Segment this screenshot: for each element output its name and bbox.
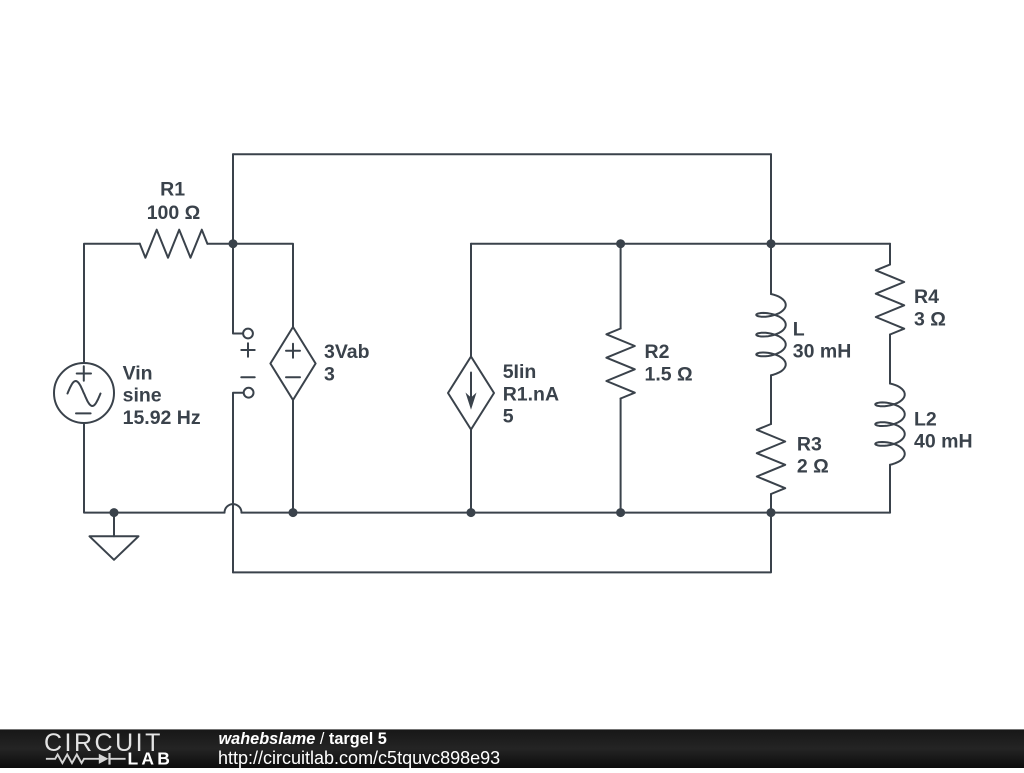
wire left drop from top rail to node A (232, 154, 234, 243)
wire Vin top lead to R1 (84, 244, 140, 363)
wire R1 to node A (207, 243, 233, 245)
junction 5Iin bottom (467, 508, 476, 517)
svg-text:L2: L2 (914, 408, 937, 430)
wire right drop from top rail (770, 154, 772, 243)
svg-text:5: 5 (503, 406, 514, 428)
svg-text:R1: R1 (160, 179, 185, 201)
svg-text:R2: R2 (645, 341, 670, 363)
wire R2 bottom lead (620, 399, 622, 513)
wire R4 top lead (889, 244, 891, 265)
ground stub (113, 513, 115, 537)
wire R3 bottom lead (770, 494, 772, 513)
CircuitLab logo diode bar (108, 753, 110, 765)
junction R2 bottom (616, 508, 625, 517)
svg-text:3Vab: 3Vab (324, 341, 370, 363)
svg-text:R4: R4 (914, 286, 939, 308)
junction node A (229, 239, 238, 248)
svg-text:5Iin: 5Iin (503, 361, 537, 383)
svg-text:R1.nA: R1.nA (503, 383, 559, 405)
svg-text:3: 3 (324, 363, 335, 385)
label - of port ab (241, 376, 254, 378)
3Vab plus mark (286, 344, 300, 358)
svg-text:30 mH: 30 mH (793, 341, 852, 363)
junction R2 top (616, 239, 625, 248)
svg-text:L: L (793, 318, 805, 340)
svg-text:2 Ω: 2 Ω (797, 456, 829, 478)
wire top rail (233, 153, 771, 155)
junction L branch top (767, 239, 776, 248)
CircuitLab logo diode triangle (99, 754, 109, 764)
dependent voltage source 3Vab diamond (270, 327, 315, 400)
Vin sine waveform (68, 381, 101, 406)
svg-text:3 Ω: 3 Ω (914, 308, 946, 330)
wire terminal b down to bottom rail (233, 393, 243, 573)
5Iin arrowhead (466, 393, 477, 410)
voltage source Vin (54, 363, 114, 423)
terminal a (243, 329, 253, 339)
terminal b (244, 388, 254, 398)
svg-text:LAB: LAB (128, 748, 174, 768)
svg-text:40 mH: 40 mH (914, 431, 973, 453)
junction 3Vab bottom (289, 508, 298, 517)
label + of port ab (241, 343, 254, 356)
3Vab minus mark (286, 376, 300, 378)
svg-text:R3: R3 (797, 433, 822, 455)
ground symbol (90, 536, 139, 560)
wire L top lead (770, 244, 772, 294)
Vin minus mark (76, 412, 91, 414)
inductor L2 (875, 384, 904, 465)
CircuitLab logo resistor squiggle (46, 755, 126, 764)
wire 5Iin bottom lead (470, 430, 472, 513)
wire 3Vab bottom to rail (292, 400, 294, 513)
junction R3 bottom (767, 508, 776, 517)
resistor R1 (140, 230, 208, 258)
svg-text:sine: sine (123, 385, 162, 407)
wire node A to 3Vab top (233, 244, 293, 327)
wire R4 to L2 (889, 335, 891, 384)
resistor R2 (606, 329, 634, 399)
svg-text:http://circuitlab.com/c5tquvc8: http://circuitlab.com/c5tquvc898e93 (218, 748, 500, 768)
wire middle rail from 5Iin to R4 branch (471, 243, 890, 245)
svg-text:100 Ω: 100 Ω (147, 202, 201, 224)
wire L2 bottom lead (889, 465, 891, 513)
wire bottom rail lowest (233, 513, 771, 573)
wire R2 top lead (620, 244, 622, 329)
svg-text:wahebslame / targel 5: wahebslame / targel 5 (219, 730, 387, 748)
junction ground (110, 508, 119, 517)
wire Vin bottom to ground rail (84, 424, 225, 513)
wire node A down to terminal a (233, 244, 243, 334)
wire L to R3 (770, 375, 772, 424)
svg-text:15.92 Hz: 15.92 Hz (123, 407, 201, 429)
wire hop over vertical at x=233 (225, 504, 242, 512)
inductor L (756, 294, 785, 375)
resistor R4 (876, 265, 904, 335)
Vin plus mark (77, 366, 91, 380)
5Iin arrow shaft (470, 373, 472, 399)
wire bottom rail right of hop (242, 512, 891, 514)
svg-text:1.5 Ω: 1.5 Ω (645, 364, 693, 386)
dependent current source 5Iin diamond (448, 357, 494, 430)
wire 5Iin top lead (470, 244, 472, 357)
footer bar (0, 729, 1024, 768)
resistor R3 (757, 424, 785, 494)
svg-text:Vin: Vin (123, 362, 153, 384)
